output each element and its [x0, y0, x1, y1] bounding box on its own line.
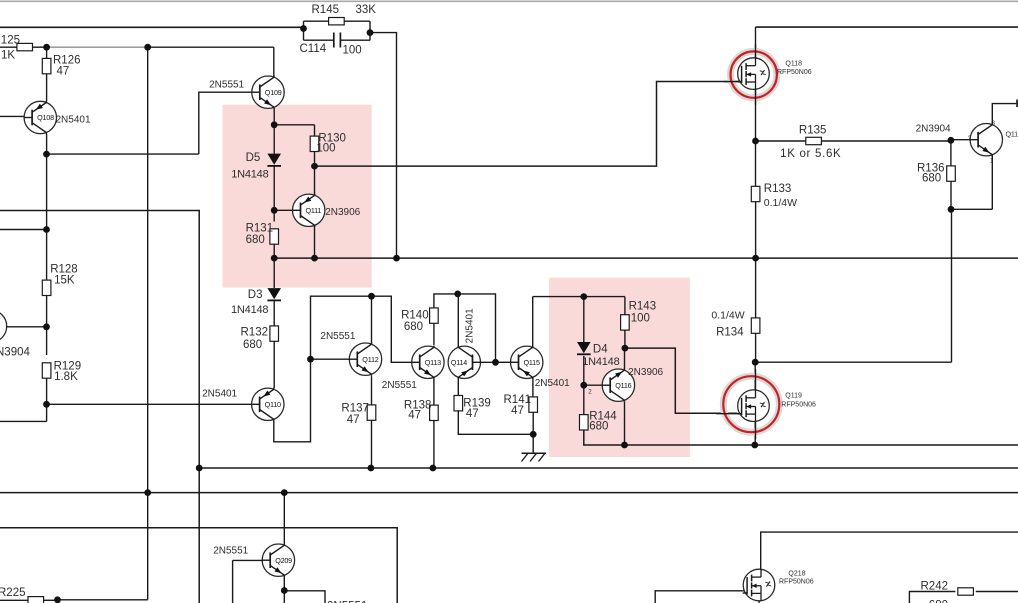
- wire Q116 base: [584, 384, 602, 386]
- svg-text:Q209: Q209: [275, 556, 292, 565]
- wire Q112 collector riser: [371, 296, 373, 343]
- svg-text:Q116: Q116: [615, 381, 631, 390]
- wire node to node (grey): [47, 46, 148, 48]
- svg-text:15K: 15K: [54, 275, 75, 287]
- transistor Q109 (2N5551): [251, 76, 284, 109]
- wire R143 top lead: [624, 297, 626, 315]
- svg-text:Q113: Q113: [425, 358, 441, 367]
- wire Q108 node to Q109 base link: [47, 153, 199, 155]
- svg-text:R135: R135: [799, 125, 827, 137]
- wire R135 left lead: [756, 140, 806, 142]
- wire D4 to node: [583, 356, 585, 385]
- wire link riser to Q109 base: [199, 92, 253, 154]
- svg-text:1.8K: 1.8K: [54, 371, 78, 383]
- node Q119 source: [751, 442, 758, 449]
- svg-text:Q117: Q117: [1006, 130, 1018, 139]
- wire Q108 collector to node: [46, 134, 48, 154]
- svg-text:Q119: Q119: [785, 393, 802, 400]
- svg-text:680: 680: [246, 234, 265, 246]
- wire Q110 emitter loop riser to Q112 collector node: [274, 296, 372, 442]
- node Q209 emitter: [281, 587, 288, 594]
- wire Q114 collector riser: [457, 294, 459, 347]
- wire R132 to Q110: [273, 341, 275, 388]
- svg-text:Q110: Q110: [265, 400, 281, 409]
- resistor R126: [42, 58, 51, 73]
- wire node to R136: [950, 141, 952, 166]
- wire R242 left lead: [909, 592, 955, 603]
- wire mid rail node: [274, 257, 1018, 259]
- wire Q112 emitter to R137: [371, 376, 373, 405]
- wire Q111 base: [274, 209, 295, 211]
- wire Q114 emitter to R139: [457, 378, 459, 396]
- wire Q116 emitter to rail: [624, 402, 626, 445]
- transistor Q209 (2N5551): [262, 544, 295, 577]
- mosfet Q118 (RFP50N06, circled): [724, 44, 777, 104]
- wire R129 to corner: [46, 378, 48, 421]
- node Q109 emitter: [271, 121, 278, 128]
- svg-text:680: 680: [404, 321, 423, 333]
- node R128/R129: [43, 323, 50, 330]
- wire R137 to rail: [371, 420, 373, 468]
- node R136 bottom: [948, 206, 955, 213]
- wire R139 to ground node: [458, 410, 533, 434]
- highlight region 1 (D5/Q111): [223, 105, 372, 288]
- svg-text:Q111: Q111: [306, 206, 322, 215]
- svg-text:2: 2: [588, 388, 592, 395]
- wire Q112 to Q113 base: [372, 296, 412, 362]
- wire rail node to D3: [273, 258, 275, 288]
- svg-text:100: 100: [316, 143, 335, 155]
- wire top rail to Q118 drain: [755, 27, 757, 58]
- node R134/Q119: [752, 359, 759, 366]
- wire feedback riser: [951, 209, 953, 362]
- wire R145 right lead: [344, 20, 370, 22]
- svg-text:R242: R242: [921, 581, 949, 593]
- svg-text:680: 680: [243, 339, 262, 351]
- wire D3 to R132: [273, 301, 275, 326]
- mosfet Q119 (RFP50N06, circled): [716, 369, 779, 439]
- transistor Q111 (2N3906): [292, 194, 325, 227]
- svg-text:D4: D4: [593, 344, 608, 356]
- wire node to Q119 drain: [754, 362, 756, 390]
- resistor R136: [947, 166, 956, 181]
- wire top rail right: [756, 26, 1018, 28]
- node R129/Q110 base: [43, 401, 50, 408]
- wire source rail: [584, 430, 1018, 445]
- node R225: [54, 596, 61, 603]
- wire R225 left lead: [0, 599, 28, 601]
- transistor Q114 (2N5401): [448, 346, 481, 379]
- wire Q111 emitter to rail: [314, 226, 316, 258]
- svg-text:R137: R137: [341, 403, 369, 415]
- node Q114 collector: [454, 291, 461, 298]
- wire node down: [46, 154, 48, 280]
- svg-text:Q118: Q118: [785, 61, 802, 68]
- svg-text:Q108: Q108: [37, 113, 54, 122]
- wire Q118 source to node: [755, 90, 757, 142]
- wire R140 top / Q114 base drop: [434, 294, 496, 362]
- node R131/rail: [271, 255, 278, 262]
- transistor Q?? (clipped, N3904): [0, 310, 7, 342]
- wire Q112 base: [311, 358, 350, 360]
- wire Q109 emitter to node: [273, 108, 275, 125]
- svg-text:1: 1: [990, 157, 994, 164]
- wire R145 node to mid rail: [370, 33, 397, 259]
- wire Q108 base: [0, 115, 24, 117]
- wire rail2 to Q209 collector: [283, 493, 285, 544]
- svg-text:Q109: Q109: [265, 88, 282, 97]
- wire R225 right lead: [44, 599, 58, 601]
- wire node to R126: [46, 47, 48, 58]
- diode D3: [267, 288, 281, 299]
- wire node to D5: [273, 125, 275, 154]
- svg-text:Q218: Q218: [788, 571, 805, 578]
- wire R128 to node: [46, 296, 48, 327]
- svg-text:47: 47: [408, 410, 421, 422]
- node Q108 collector: [43, 151, 50, 158]
- clipped element right edge: [1016, 100, 1018, 108]
- transistor Q108 (2N5401): [24, 101, 57, 134]
- wire rail V-: [199, 467, 1018, 469]
- resistor R133: [751, 186, 760, 201]
- wire Q209 emitter down: [283, 576, 285, 603]
- svg-text:2N5401: 2N5401: [465, 308, 476, 343]
- node Q112 base: [307, 356, 314, 363]
- node Q112 collector: [368, 293, 375, 300]
- node D4 cathode: [580, 382, 587, 389]
- wire R138 to rail: [433, 420, 435, 468]
- transistor Q117 (2N3904): [970, 123, 1003, 156]
- wire to R225: [58, 599, 148, 601]
- transistor Q113 (2N5551): [411, 346, 444, 379]
- svg-text:1N4148: 1N4148: [231, 169, 268, 181]
- node left stub: [43, 226, 50, 233]
- resistor R140: [430, 308, 439, 323]
- wire Q218 gate: [655, 591, 744, 603]
- wire Q218 source stub: [758, 601, 760, 603]
- resistor R138: [430, 405, 439, 420]
- resistor R225: [28, 597, 44, 603]
- svg-text:2N5551: 2N5551: [209, 80, 244, 91]
- wire gate drive to Q118: [315, 82, 740, 167]
- node rail2 colC: [144, 489, 151, 496]
- svg-text:2N3906: 2N3906: [628, 367, 663, 378]
- svg-text:C114: C114: [300, 43, 327, 55]
- wire R242 right lead: [976, 591, 1018, 593]
- svg-text:Q115: Q115: [524, 358, 540, 367]
- wire node to R130 branch: [274, 124, 314, 126]
- svg-text:R143: R143: [629, 301, 657, 313]
- svg-text:680: 680: [929, 600, 948, 603]
- wire Q117 emitter drop: [991, 155, 993, 209]
- wire Q209 base: [233, 559, 262, 561]
- svg-text:2N5401: 2N5401: [535, 378, 570, 389]
- svg-text:Q114: Q114: [451, 358, 467, 367]
- wire stub left at node: [0, 229, 47, 231]
- svg-text:47: 47: [511, 405, 524, 417]
- wire R131 to rail node: [273, 244, 275, 258]
- wire Q117 base: [951, 139, 970, 141]
- wire node to Q111 collector: [314, 166, 316, 194]
- svg-text:R140: R140: [401, 310, 429, 322]
- wire node to Q109 collector: [148, 46, 274, 48]
- transistor Q115 (2N5401): [510, 346, 543, 379]
- svg-text:R131: R131: [246, 223, 274, 235]
- svg-text:33K: 33K: [356, 4, 377, 16]
- svg-text:1K: 1K: [1, 50, 15, 62]
- ground (chassis): [522, 452, 547, 454]
- wire node to R129: [46, 327, 48, 355]
- wire R125 to node: [32, 46, 46, 48]
- wire R126 to Q108: [46, 74, 48, 102]
- resistor R242: [958, 588, 974, 595]
- node R125/R126: [43, 44, 50, 51]
- svg-text:R145: R145: [312, 4, 340, 16]
- node R145 right: [367, 29, 374, 36]
- svg-text:680: 680: [922, 173, 941, 185]
- svg-text:0.1/4W: 0.1/4W: [711, 310, 744, 322]
- wire R130 to node: [314, 152, 316, 167]
- wire Q115 to R143 top: [533, 296, 625, 298]
- svg-text:R125: R125: [0, 35, 20, 47]
- svg-text:1N4148: 1N4148: [582, 356, 619, 368]
- node R143/Q116: [622, 345, 629, 352]
- wire Q218 drain rail: [761, 532, 1018, 569]
- svg-text:D3: D3: [248, 289, 263, 301]
- resistor R129: [42, 363, 51, 378]
- wire R145 left lead: [304, 20, 329, 22]
- node Q111 emitter: [311, 255, 318, 262]
- wire R145-C114 right bridge: [369, 21, 371, 40]
- resistor R131: [270, 229, 279, 244]
- node Q114/Q115 base: [492, 359, 499, 366]
- node R145 left: [300, 25, 307, 32]
- wire D5 to node: [273, 166, 275, 210]
- node D4 anode: [580, 293, 587, 300]
- svg-text:680: 680: [589, 421, 608, 433]
- node R145 branch: [393, 255, 400, 262]
- wire node to Q117 emitter: [951, 208, 992, 210]
- page border top: [0, 0, 1018, 2]
- mosfet Q218 (RFP50N06): [743, 569, 775, 601]
- wire node to feedback riser: [755, 361, 951, 363]
- resistor R130: [310, 136, 319, 151]
- svg-text:47: 47: [347, 414, 360, 426]
- svg-text:0.1/4W: 0.1/4W: [764, 197, 797, 209]
- wire Q117 collector out: [992, 104, 1018, 125]
- svg-text:RFP50N06: RFP50N06: [777, 69, 812, 76]
- wire rail mid-left with drop: [0, 211, 199, 603]
- wire Q115 emitter to R141: [532, 378, 534, 397]
- transistor Q110 (2N5401): [251, 388, 284, 421]
- resistor R139: [454, 396, 463, 411]
- svg-text:RFP50N06: RFP50N06: [779, 579, 814, 586]
- resistor R137: [367, 405, 376, 420]
- svg-text:2N3904: 2N3904: [916, 124, 951, 135]
- wire Q109 collector riser: [273, 47, 275, 76]
- resistor R132: [270, 326, 279, 341]
- wire Q110 base: [47, 403, 252, 405]
- wire gate drive to Q119: [625, 348, 737, 413]
- svg-text:RFP50N06: RFP50N06: [781, 402, 816, 409]
- node Q116 emitter: [621, 442, 628, 449]
- highlight region 2 (D4/Q116): [549, 278, 690, 457]
- wire R130 top lead: [314, 125, 316, 136]
- svg-text:2N5551: 2N5551: [320, 331, 355, 342]
- svg-text:2N3906: 2N3906: [325, 207, 360, 218]
- node rail V- left: [196, 465, 203, 472]
- node R130 bottom: [311, 163, 318, 170]
- wire node to ground: [532, 434, 534, 453]
- transistor Q112 (2N5551): [349, 343, 382, 376]
- wire R133 to rail: [755, 202, 757, 258]
- node R138: [430, 465, 437, 472]
- resistor R144: [580, 415, 589, 430]
- wire top rail left: [0, 26, 304, 28]
- wire Q115 base: [496, 361, 512, 363]
- wire Q113 emitter to R138: [433, 379, 435, 407]
- node R133/R134: [752, 255, 759, 262]
- wire R136 to node: [950, 181, 952, 209]
- node col C top: [144, 44, 151, 51]
- wire N3904 stub to node: [7, 326, 47, 328]
- svg-text:100: 100: [631, 313, 650, 325]
- capacitor C114: [304, 39, 334, 41]
- svg-text:R134: R134: [716, 327, 744, 339]
- wire R141 to node: [532, 412, 534, 434]
- wire node to R133: [755, 141, 757, 186]
- svg-text:47: 47: [466, 408, 479, 420]
- diode D5: [267, 154, 281, 165]
- svg-text:R133: R133: [764, 183, 792, 195]
- wire rail to R134: [755, 258, 757, 318]
- wire rail 3 with drop: [0, 528, 397, 603]
- wire Q119 source to rail: [754, 422, 756, 445]
- wire R134 to node: [755, 333, 757, 362]
- resistor R134: [751, 318, 760, 333]
- svg-text:2N5551: 2N5551: [213, 546, 248, 557]
- wire R125 left lead: [0, 46, 17, 48]
- wire R135 to node: [822, 140, 951, 142]
- wire Q115 collector riser: [532, 297, 534, 347]
- svg-text:100: 100: [343, 45, 362, 57]
- resistor R135: [806, 137, 822, 144]
- resistor R141: [529, 397, 538, 412]
- svg-text:2N5401: 2N5401: [56, 115, 91, 126]
- svg-text:Q112: Q112: [362, 355, 378, 364]
- diode D4: [577, 342, 591, 353]
- svg-text:1N4148: 1N4148: [231, 304, 268, 316]
- resistor R143: [621, 315, 630, 330]
- wire node to R144: [583, 385, 585, 414]
- svg-text:R132: R132: [241, 327, 269, 339]
- transistor Q116 (2N3906): [602, 369, 635, 402]
- node R135 right: [948, 137, 955, 144]
- svg-text:2N5401: 2N5401: [202, 389, 237, 400]
- wire node to R131: [273, 210, 275, 221]
- wire rail 2: [0, 492, 1018, 494]
- wire node to D4: [583, 297, 585, 342]
- wire long column C: [147, 47, 149, 600]
- node R137: [368, 465, 375, 472]
- node rail2 Q209: [281, 489, 288, 496]
- node R141/ground: [530, 431, 537, 438]
- svg-text:2N5551: 2N5551: [382, 380, 417, 391]
- resistor R128: [42, 280, 51, 295]
- wire R143 to node: [624, 330, 626, 348]
- wire Q209 base drop: [232, 560, 234, 603]
- wire corner to left edge: [0, 420, 47, 422]
- node D5/Q111 base: [271, 207, 278, 214]
- wire Q209 emitter branch: [284, 591, 325, 603]
- svg-text:R225: R225: [0, 587, 26, 599]
- resistor R145: [329, 18, 345, 25]
- svg-text:1K or 5.6K: 1K or 5.6K: [780, 148, 841, 160]
- svg-text:47: 47: [57, 66, 70, 78]
- wire Q114 base: [473, 361, 496, 363]
- svg-text:D5: D5: [246, 152, 261, 164]
- wire node to Q116 collector: [624, 348, 626, 369]
- wire R145-C114 left bridge: [303, 21, 305, 40]
- node R135 left: [752, 138, 759, 145]
- svg-text:N3904: N3904: [0, 347, 30, 359]
- wire R140 to Q113: [433, 324, 435, 346]
- resistor R125: [17, 43, 33, 50]
